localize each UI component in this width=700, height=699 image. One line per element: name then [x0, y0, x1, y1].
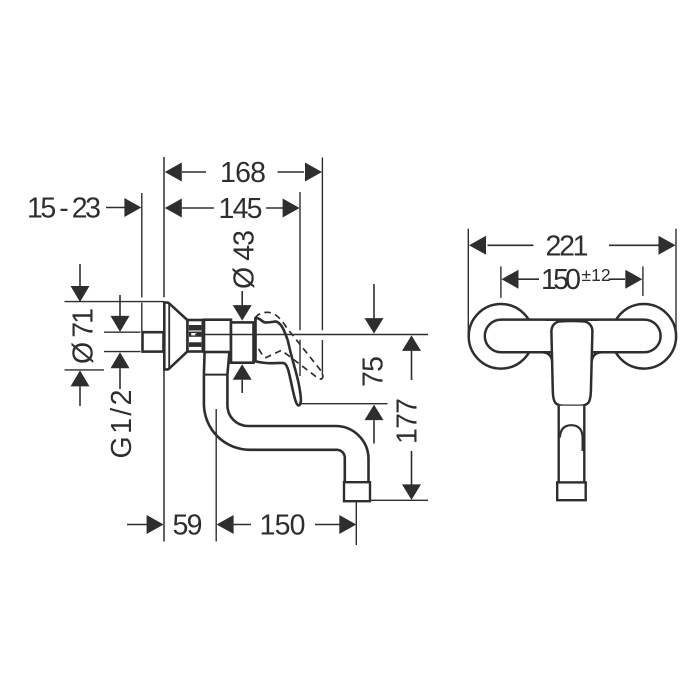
- svg-text:Ø 71: Ø 71: [68, 308, 100, 364]
- handle/cartridge joint: [254, 318, 257, 361]
- center line: [195, 334, 428, 336]
- ext lines 150+-12: [500, 266, 502, 297]
- aerator: [344, 482, 370, 501]
- dim 168: [182, 171, 304, 173]
- bar bottom fillets into handle: [534, 352, 552, 361]
- dim 150+-12: [519, 278, 540, 280]
- body bar: [485, 320, 661, 353]
- handle solid: [255, 318, 301, 405]
- cartridge body (O43): [231, 322, 254, 362]
- bottom reference line (spout outlet): [370, 499, 428, 501]
- escutcheon circle left: [469, 304, 534, 369]
- escutcheon circle right: [612, 304, 677, 369]
- aerator front: [557, 482, 586, 500]
- spout arch: [560, 425, 583, 451]
- bar top edge over handle: [546, 318, 598, 321]
- dim 221: [488, 244, 534, 246]
- svg-text:75: 75: [358, 356, 390, 387]
- extension line 145 right (x=300): [299, 192, 301, 330]
- G1/2 square fitting: [143, 332, 164, 351]
- dim O71: [79, 264, 81, 287]
- dim 177: [402, 335, 421, 351]
- dim 59 / 150 bottom: [127, 524, 148, 526]
- dim 15-23: [106, 207, 125, 209]
- extension line 15-23 (x=141.8): [141, 193, 143, 298]
- spout tube outer edge: [204, 375, 345, 483]
- svg-text:59: 59: [173, 510, 203, 542]
- dim G1/2 square height: [119, 295, 121, 317]
- connector body: [204, 320, 231, 352]
- svg-text:177: 177: [392, 398, 424, 444]
- ext lines 221: [467, 229, 469, 336]
- line at handle tip level (75 bottom): [300, 403, 388, 405]
- spout tube inner edge: [227, 375, 368, 483]
- escutcheon (flared cone): [164, 303, 187, 370]
- handle front: [551, 321, 592, 406]
- svg-text:G1/2: G1/2: [106, 390, 138, 459]
- ribbed nut: [188, 320, 203, 352]
- bottom ext line outlet center x=356.3: [355, 501, 357, 545]
- svg-text:150: 150: [260, 510, 306, 542]
- dim 145: [182, 207, 283, 209]
- svg-text:Ø 43: Ø 43: [229, 230, 261, 289]
- spout upper taper: [204, 352, 230, 375]
- spout front: [559, 406, 585, 483]
- svg-text:150: 150: [541, 264, 581, 296]
- extension line 168 right (x=322.4): [321, 158, 323, 331]
- svg-text:±12: ±12: [582, 265, 611, 285]
- dashed handle (raised position): [255, 312, 323, 379]
- svg-text:168: 168: [220, 157, 266, 189]
- svg-text:145: 145: [219, 193, 263, 225]
- svg-text:15 - 23: 15 - 23: [27, 193, 101, 225]
- svg-text:221: 221: [546, 230, 589, 262]
- dim 75: [373, 284, 375, 319]
- bottom ext line pipe center x=216.2: [215, 409, 217, 542]
- wall line: [163, 157, 165, 297]
